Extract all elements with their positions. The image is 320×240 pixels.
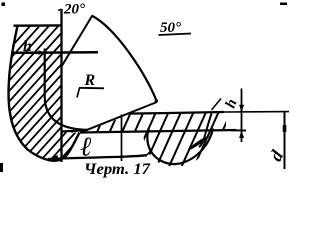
svg-text:20°: 20° <box>63 2 85 18</box>
svg-text:ℓ: ℓ <box>80 132 92 162</box>
svg-text:h: h <box>23 38 32 55</box>
svg-text:Черт. 17: Черт. 17 <box>84 161 151 178</box>
svg-text:R: R <box>84 72 96 89</box>
